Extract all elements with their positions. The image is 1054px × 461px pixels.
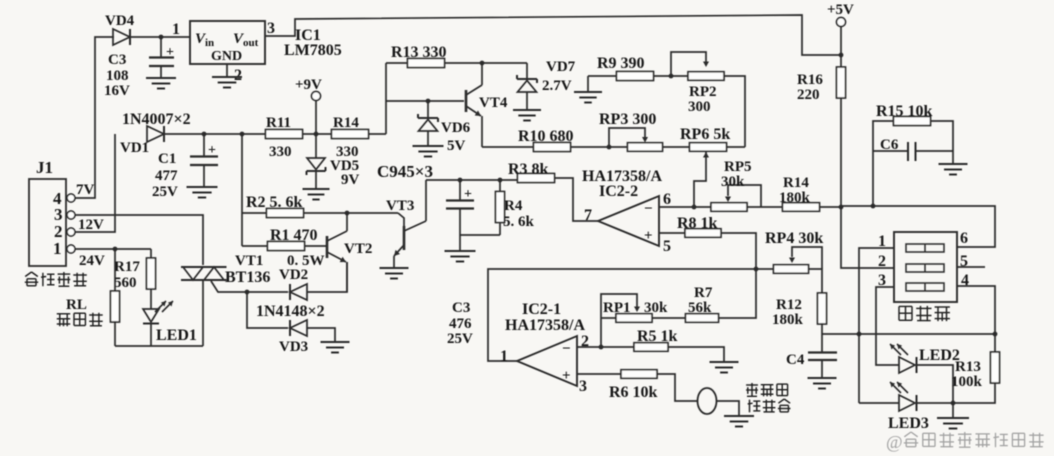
- svg-text:VD6: VD6: [441, 120, 471, 136]
- wire +5V to R16: [840, 26, 842, 68]
- svg-text:IC2-2: IC2-2: [599, 183, 638, 200]
- wire RP6 to RP2 riser: [727, 146, 746, 148]
- svg-text:R10 680: R10 680: [518, 128, 574, 145]
- svg-text:C3: C3: [452, 300, 470, 316]
- svg-text:6: 6: [663, 191, 671, 208]
- collector node line: [426, 179, 519, 181]
- display board jumper 2: [906, 264, 944, 272]
- svg-text:RP6 5k: RP6 5k: [680, 126, 730, 143]
- diode VD4: [113, 29, 130, 45]
- ground for R5: [710, 361, 739, 363]
- transistor VT3: [398, 213, 404, 228]
- ground for thermocouple: [724, 415, 754, 417]
- branch riser from 9V line: [241, 134, 243, 246]
- svg-text:R6 10k: R6 10k: [609, 384, 658, 401]
- RP4 wiper: [789, 258, 795, 264]
- svg-text:VT2: VT2: [344, 241, 372, 257]
- LED supply line: [822, 333, 995, 335]
- svg-text:2.7V: 2.7V: [542, 78, 572, 94]
- display board jumper 1: [906, 244, 944, 252]
- svg-text:+9V: +9V: [295, 77, 322, 93]
- wire R10 to RP3: [571, 146, 629, 148]
- svg-text:300: 300: [688, 99, 711, 115]
- wire to R1: [242, 245, 268, 247]
- wire pin1 24V rail: [75, 248, 151, 250]
- resistor R17 560: [147, 258, 156, 289]
- svg-text:C3: C3: [108, 52, 126, 68]
- wire LED1 down: [150, 324, 152, 347]
- resistor R15 10k: [894, 117, 931, 126]
- wire RP5 to R14: [747, 206, 783, 208]
- svg-text:1: 1: [53, 239, 62, 258]
- pin 1 terminal: [67, 245, 75, 253]
- resistor R14 180k: [783, 203, 820, 212]
- wire VD3 to ground: [307, 328, 335, 341]
- svg-text:@: @: [886, 432, 903, 452]
- wire R3 to IC2-2 output: [555, 178, 599, 221]
- wire R16 down to summing line: [840, 98, 842, 207]
- svg-text:+: +: [562, 368, 571, 384]
- capacitor C2 electrolytic: [459, 180, 461, 200]
- wire R14 to riser: [369, 133, 387, 135]
- svg-text:5: 5: [663, 238, 671, 255]
- label display board (Chinese): [899, 306, 912, 320]
- wire thermocouple to ground: [717, 401, 740, 415]
- svg-text:LM7805: LM7805: [284, 42, 342, 59]
- svg-text:RP5: RP5: [724, 159, 752, 175]
- svg-text:LED1: LED1: [156, 327, 197, 344]
- svg-text:R14: R14: [333, 115, 359, 131]
- +9V terminal: [312, 92, 321, 101]
- wire pin3 12V to triac MT2: [75, 215, 203, 265]
- LED LED3: [899, 395, 915, 411]
- resistor R16 220: [837, 67, 846, 98]
- svg-text:J1: J1: [36, 158, 53, 177]
- wire node to RP4: [756, 268, 774, 270]
- svg-text:HA17358/A: HA17358/A: [505, 317, 585, 334]
- wire RP1 to R7: [652, 317, 686, 319]
- capacitor C3 108 16V: [160, 37, 162, 57]
- wire R17 to LED1: [150, 289, 152, 309]
- resistor R9 390: [617, 72, 654, 81]
- svg-text:3: 3: [579, 378, 587, 395]
- svg-text:R13: R13: [955, 359, 981, 375]
- ground below C4: [808, 377, 837, 379]
- pin 3 terminal: [67, 211, 75, 219]
- display pin1 wire: [859, 248, 894, 334]
- potentiometer RP4 30k: [774, 265, 809, 274]
- LED2 cathode wire: [917, 365, 954, 404]
- svg-text:220: 220: [797, 87, 820, 103]
- IC1 GND pin wire: [226, 64, 228, 76]
- wire IC1 Vout to +5V rail: [265, 15, 841, 55]
- resistor R3 8k: [518, 174, 555, 183]
- wire R5 to ground: [668, 347, 724, 361]
- svg-text:1: 1: [172, 21, 180, 38]
- ground for C6: [939, 163, 968, 165]
- RP1 bracket: [601, 294, 637, 347]
- svg-text:IC2-1: IC2-1: [522, 301, 561, 318]
- wire R9 to RP2: [654, 75, 689, 77]
- ground below C3: [146, 77, 176, 79]
- resistor R10 680: [534, 143, 571, 152]
- svg-text:24V: 24V: [79, 253, 105, 269]
- zener VD6 5V: [427, 101, 429, 118]
- triac MT1 down wire: [202, 280, 204, 346]
- resistor R1 470: [268, 242, 305, 251]
- ground below C2: [459, 235, 461, 250]
- LED3 cathode wire: [917, 402, 954, 404]
- op-amp IC2-1 HA17358/A: [517, 336, 577, 386]
- RP5 wiper: [725, 197, 731, 203]
- zener VD5 9V: [315, 134, 317, 158]
- pin5 wire to R8: [659, 232, 685, 234]
- svg-text:R12: R12: [776, 297, 802, 313]
- wire down to display pin2: [841, 207, 894, 268]
- RP2 wiper bracket: [671, 52, 706, 76]
- diode VD3: [290, 320, 307, 336]
- display pin3 wire to LED2: [876, 287, 899, 365]
- connector J1 box: [29, 179, 66, 266]
- svg-text:476: 476: [449, 316, 472, 332]
- LED LED2: [899, 357, 915, 373]
- svg-text:VD7: VD7: [546, 59, 576, 75]
- R15 C6 left tie: [873, 121, 894, 206]
- svg-text:R17: R17: [114, 259, 140, 275]
- ground below IC1: [212, 76, 242, 78]
- svg-text:VD1: VD1: [120, 140, 149, 156]
- wire VD4 to IC1 Vin: [131, 36, 190, 38]
- label thermocouple (Chinese): [746, 383, 758, 396]
- wire R1 to VT2 base: [305, 245, 327, 247]
- svg-text:LED3: LED3: [888, 415, 929, 432]
- svg-text:25V: 25V: [152, 184, 178, 200]
- display board box: [894, 232, 957, 302]
- display pin4 wire: [957, 286, 995, 353]
- svg-text:R1 470: R1 470: [270, 227, 318, 244]
- svg-text:C4: C4: [786, 352, 805, 368]
- wire 24V to R17: [150, 249, 152, 258]
- wire R14 to R16 node: [820, 206, 842, 208]
- node +9V junction: [314, 132, 319, 137]
- svg-text:VD2: VD2: [279, 267, 308, 283]
- RP6 wiper to IC2-2 inverting input: [703, 152, 709, 158]
- pin 4 terminal: [67, 194, 75, 202]
- transistor VT2: [326, 236, 329, 258]
- svg-text:out: out: [243, 37, 259, 49]
- wire R11 to R14: [303, 133, 333, 135]
- svg-text:1: 1: [500, 348, 508, 365]
- svg-text:R13 330: R13 330: [391, 44, 447, 61]
- svg-text:RP2: RP2: [689, 84, 717, 100]
- svg-text:+: +: [644, 228, 653, 244]
- potentiometer RP2 300: [688, 72, 724, 81]
- ground below VD6: [413, 145, 444, 147]
- svg-text:5. 6k: 5. 6k: [503, 214, 535, 230]
- diode VD1: [147, 126, 164, 142]
- svg-text:R14: R14: [783, 175, 809, 191]
- svg-text:2: 2: [234, 67, 242, 84]
- svg-text:7V: 7V: [76, 182, 95, 198]
- wire VD2 to VT2 emitter: [307, 262, 347, 292]
- potentiometer RP6 5k: [690, 143, 727, 152]
- resistor R2 5.6k: [267, 209, 304, 218]
- op-amp IC2-2 HA17358/A: [598, 196, 659, 246]
- regulator IC1 LM7805 box: [190, 21, 265, 64]
- bottom return wire: [114, 321, 116, 346]
- svg-text:R15 10k: R15 10k: [876, 103, 933, 120]
- svg-text:RP3 300: RP3 300: [599, 111, 656, 128]
- svg-text:1N4148×2: 1N4148×2: [256, 303, 325, 320]
- wire pin4 to VD4: [75, 37, 114, 198]
- zener VD7 2.7V: [526, 63, 528, 79]
- wire RP2 down to RP6 line: [724, 76, 745, 147]
- display pin5 stub: [957, 266, 985, 268]
- svg-text:BT136: BT136: [225, 269, 270, 286]
- resistor R13 330: [386, 62, 408, 64]
- potentiometer RP1 30k: [616, 314, 652, 323]
- capacitor C1 477 25V: [203, 134, 205, 156]
- svg-text:2: 2: [878, 253, 886, 270]
- svg-text:5V: 5V: [447, 138, 466, 154]
- ground for VD3: [321, 341, 350, 343]
- svg-text:R7: R7: [694, 285, 713, 301]
- svg-text:R8 1k: R8 1k: [677, 215, 718, 232]
- triac VT1 BT136: [181, 266, 227, 268]
- label AC input (Chinese): [25, 272, 38, 286]
- svg-text:330: 330: [269, 144, 292, 160]
- svg-text:180k: 180k: [772, 312, 804, 328]
- svg-text:−: −: [562, 341, 571, 357]
- node R2 branch: [240, 132, 245, 137]
- resistor R14 330: [332, 130, 369, 139]
- wire VT4 emitter to R10: [482, 146, 534, 148]
- resistor R13 100k: [991, 352, 1000, 383]
- wire +9V down: [315, 100, 317, 134]
- triac gate wire: [211, 281, 288, 292]
- transistor VT4: [465, 90, 468, 112]
- svg-text:VD4: VD4: [105, 13, 135, 29]
- svg-text:RP1: RP1: [603, 300, 631, 316]
- svg-text:VD3: VD3: [279, 339, 308, 355]
- wire R12 to C4 line: [821, 323, 823, 334]
- svg-text:in: in: [205, 37, 214, 49]
- resistor R7 56k: [686, 314, 719, 323]
- wire R13 to VD7: [445, 62, 528, 64]
- svg-text:330: 330: [336, 144, 359, 160]
- wire summing line to display pin6 loop: [841, 206, 995, 247]
- svg-text:30k: 30k: [644, 300, 668, 316]
- ground for LEDs: [952, 403, 954, 417]
- node C1 top: [202, 132, 207, 137]
- ground for R9: [574, 91, 602, 93]
- svg-text:+: +: [166, 45, 174, 60]
- svg-text:+5V: +5V: [827, 2, 854, 18]
- diode VD2: [290, 284, 307, 300]
- svg-text:VT3: VT3: [386, 198, 414, 214]
- svg-text:+: +: [208, 143, 216, 158]
- wire gate to VD3: [247, 292, 288, 328]
- svg-text:12V: 12V: [78, 217, 104, 233]
- svg-text:180k: 180k: [779, 190, 811, 206]
- svg-text:C945×3: C945×3: [377, 162, 433, 181]
- resistor R12 180k: [818, 293, 827, 324]
- potentiometer RP5 30k: [711, 203, 747, 212]
- R15 C6 right tie to ground: [931, 121, 954, 151]
- ground below VD7: [513, 109, 541, 111]
- wire R8 to RP4 node: [721, 233, 756, 269]
- wire VD1 to R11: [165, 133, 266, 135]
- wire to R2: [242, 212, 267, 214]
- ground below C1: [187, 186, 218, 188]
- RP3 wiper bracket: [609, 128, 645, 147]
- svg-text:R16: R16: [797, 72, 823, 88]
- riser to R13 and VT4 base: [385, 63, 387, 134]
- svg-text:GND: GND: [211, 49, 242, 64]
- svg-text:−: −: [644, 201, 653, 217]
- ground below VT3: [380, 267, 409, 269]
- svg-text:25V: 25V: [447, 331, 473, 347]
- svg-text:30k: 30k: [721, 174, 745, 190]
- svg-text:6: 6: [960, 230, 968, 247]
- label heating wire (Chinese): [57, 314, 70, 326]
- svg-text:477: 477: [155, 168, 178, 184]
- wire pin2 to VD1: [75, 134, 115, 232]
- resistor R11: [266, 130, 303, 139]
- svg-text:RL: RL: [66, 297, 87, 313]
- svg-text:RP4 30k: RP4 30k: [765, 230, 823, 247]
- resistor R5 1k: [634, 343, 668, 352]
- pin 2 terminal: [67, 228, 75, 236]
- potentiometer RP3 300: [628, 143, 663, 152]
- svg-text:VT1: VT1: [235, 253, 263, 269]
- svg-text:C1: C1: [158, 151, 176, 167]
- R4 bottom tie: [460, 234, 500, 236]
- feedback wire IC2-1 output: [488, 269, 756, 361]
- svg-text:R9 390: R9 390: [597, 55, 645, 72]
- wire gnd to R9: [588, 75, 618, 77]
- wire R6 to thermocouple: [657, 374, 698, 401]
- wire to R13 bottom: [953, 382, 995, 403]
- svg-text:R2 5. 6k: R2 5. 6k: [246, 194, 303, 211]
- svg-text:LED2: LED2: [919, 347, 960, 364]
- +5V terminal: [837, 18, 846, 27]
- svg-text:56k: 56k: [688, 300, 712, 316]
- capacitor C4: [821, 334, 823, 352]
- resistor R6 10k: [621, 370, 657, 379]
- svg-text:3: 3: [267, 20, 275, 37]
- svg-text:9V: 9V: [341, 172, 360, 188]
- svg-text:100k: 100k: [951, 374, 983, 390]
- svg-text:R5 1k: R5 1k: [637, 328, 678, 345]
- LED LED1: [143, 309, 159, 322]
- wire R7 up to RP4 node: [719, 269, 757, 318]
- LED3 anode wire: [859, 402, 899, 404]
- svg-text:560: 560: [114, 275, 137, 291]
- display board jumper 3: [906, 283, 944, 291]
- pin3 wire: [577, 373, 621, 375]
- wire RP3 to RP6: [663, 146, 691, 148]
- svg-text:R11: R11: [266, 115, 291, 131]
- wire RP4 to R12: [809, 269, 823, 294]
- ground below VD5: [303, 188, 330, 190]
- svg-text:+: +: [464, 187, 472, 202]
- svg-text:1N4007×2: 1N4007×2: [122, 111, 191, 128]
- svg-text:R4: R4: [504, 198, 523, 214]
- heater RL resistor: [114, 249, 116, 292]
- resistor R8 1k: [685, 229, 721, 238]
- svg-text:108: 108: [106, 68, 129, 84]
- capacitor C6: [907, 142, 909, 161]
- wire R2 to VT3 base: [304, 212, 399, 214]
- svg-text:7: 7: [584, 207, 592, 224]
- node VD6 tap: [426, 99, 431, 104]
- node C3 top: [159, 35, 164, 40]
- svg-text:VT4: VT4: [479, 95, 508, 111]
- pin6 wire: [659, 206, 711, 208]
- VT4 base wire: [386, 100, 464, 102]
- display pin1 to LED3 anode: [858, 334, 860, 403]
- thermocouple sensor: [698, 388, 717, 414]
- svg-text:16V: 16V: [104, 83, 130, 99]
- svg-text:R3 8k: R3 8k: [508, 161, 549, 178]
- resistor R4 5.6k: [499, 180, 501, 191]
- pin2 wire: [577, 346, 634, 348]
